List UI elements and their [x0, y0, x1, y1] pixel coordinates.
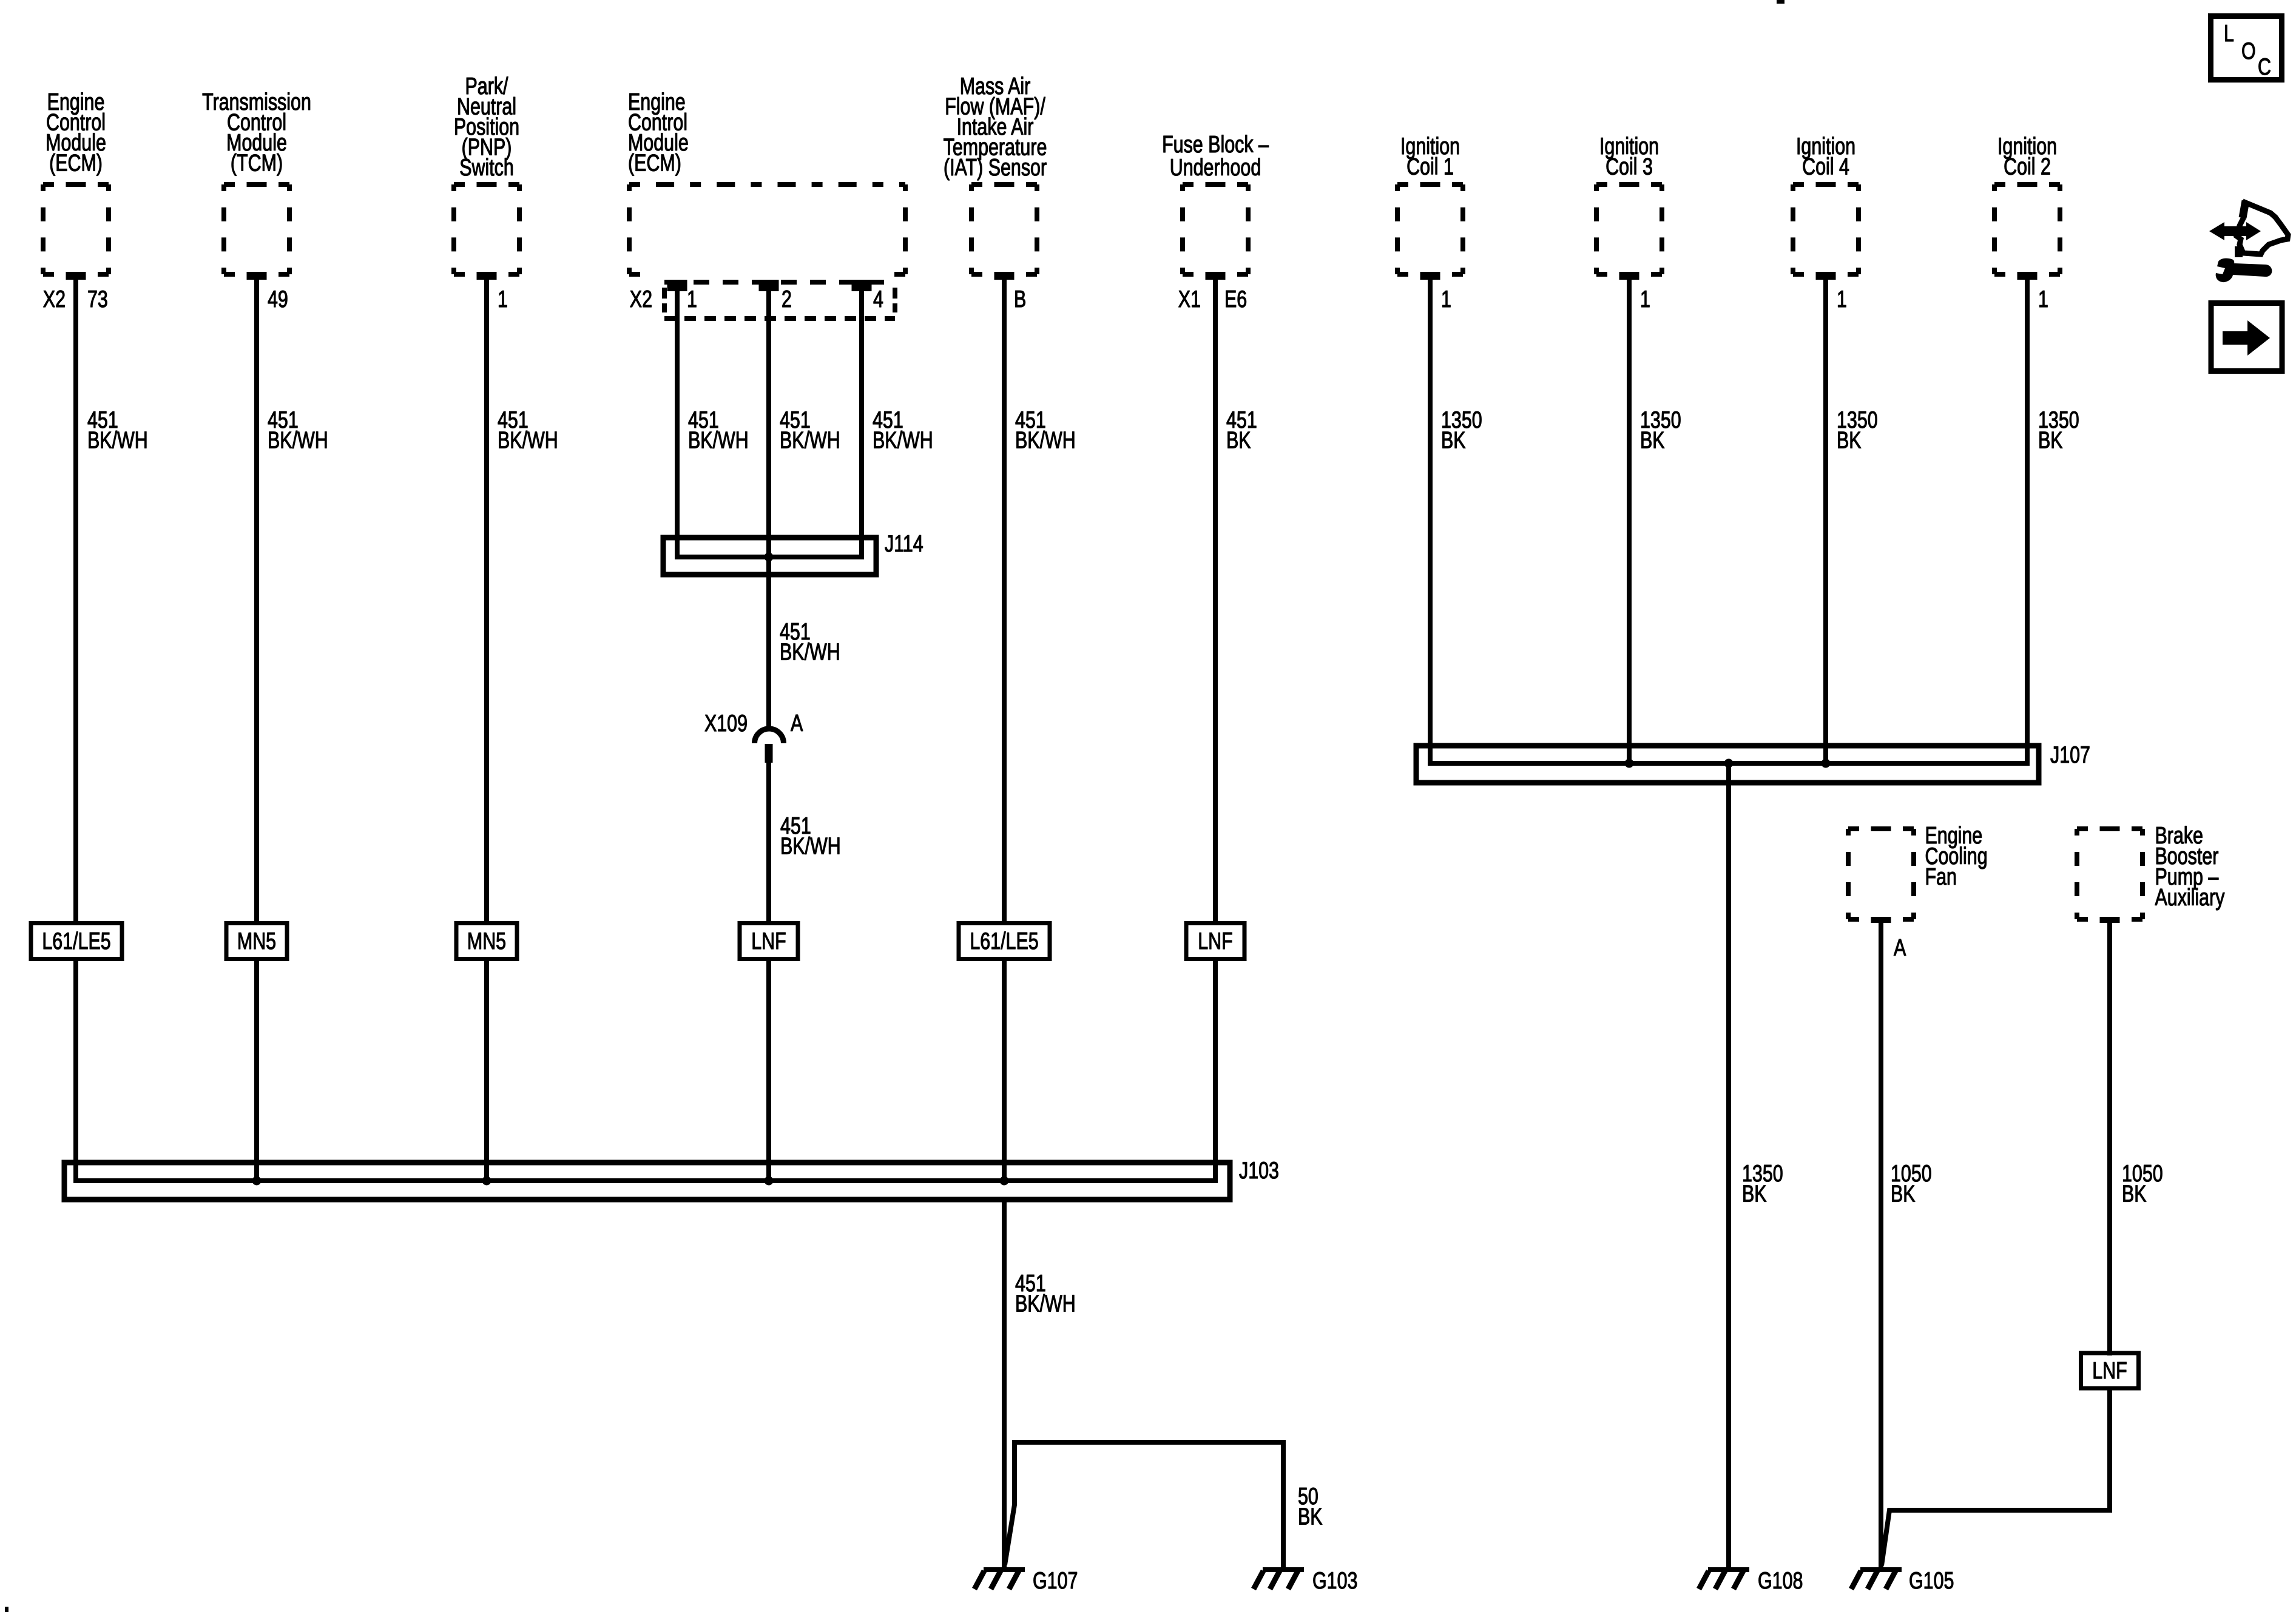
svg-text:LNF: LNF: [1198, 928, 1232, 954]
legend icon: wrench: [2216, 258, 2272, 283]
connector box: Engine Control Module (ECM) #2 (wide): [629, 184, 905, 274]
connector box: Mass Air Flow (MAF)/IAT Sensor: [971, 184, 1037, 274]
page artifact: bottom-left dot: [5, 1607, 8, 1612]
svg-text:BK/WH: BK/WH: [498, 427, 558, 453]
connector box: Brake Booster Pump - Auxiliary: [2077, 829, 2142, 919]
svg-text:MN5: MN5: [237, 928, 276, 954]
connector box: Transmission Control Module (TCM): [224, 184, 289, 274]
pin cap ECM1 73: [66, 274, 86, 280]
svg-text:BK: BK: [2122, 1181, 2147, 1207]
option box LNF (Fuse Block wire): [1186, 923, 1244, 959]
wire 1050 BK from Engine Cooling Fan to ground G105: [1879, 922, 1883, 1567]
wire 451 BK/WH from PNP switch pin 1 (upper): [484, 274, 489, 923]
splice J114 outer box: [663, 538, 876, 575]
svg-text:BK/WH: BK/WH: [688, 427, 749, 453]
connector box: Park/Neutral Position (PNP) Switch: [454, 184, 519, 274]
connector box: Fuse Block - Underhood: [1183, 184, 1248, 274]
wire 1050 BK lower run from LNF box to ground G105: [1882, 1388, 2110, 1565]
pin cap Coil1 1: [1420, 274, 1440, 280]
pin cap Engine Cooling Fan A: [1871, 917, 1891, 923]
svg-text:(ECM): (ECM): [49, 150, 103, 176]
svg-text:J103: J103: [1239, 1157, 1279, 1183]
svg-text:BK/WH: BK/WH: [1015, 1291, 1076, 1317]
pin cap ECM2 pin 4: [852, 280, 872, 291]
svg-text:1: 1: [498, 286, 508, 312]
svg-text:BK: BK: [1891, 1181, 1916, 1207]
page artifact: top edge tick: [1777, 0, 1784, 4]
ground G108: [1699, 1570, 1749, 1589]
svg-text:BK: BK: [1441, 427, 1466, 453]
svg-text:Coil 4: Coil 4: [1802, 154, 1849, 180]
svg-text:G103: G103: [1312, 1567, 1357, 1593]
wire 451 BK/WH from X109 to LNF box: [766, 763, 771, 923]
connector box: Ignition Coil 1: [1397, 184, 1463, 274]
wire 451 BK/WH from ECM2 pin 4 into J114: [859, 280, 864, 559]
svg-text:Fan: Fan: [1925, 863, 1957, 890]
svg-text:BK/WH: BK/WH: [87, 427, 148, 453]
connector box: Ignition Coil 4: [1793, 184, 1859, 274]
svg-text:2: 2: [782, 286, 792, 312]
wire 451 BK/WH from ECM2 pin 2 through J114 to X109: [766, 280, 771, 729]
svg-text:BK: BK: [1298, 1504, 1323, 1530]
wire 1350 BK from Ignition Coil 2 (into J107 corner): [2025, 274, 2030, 766]
svg-text:J107: J107: [2050, 741, 2090, 768]
splice bar of J107: [1428, 761, 2030, 766]
svg-text:1: 1: [687, 286, 697, 312]
svg-text:A: A: [791, 710, 803, 736]
pin cap Coil2 1: [2017, 274, 2038, 280]
svg-text:BK/WH: BK/WH: [780, 833, 841, 859]
connector X2 sub-box of ECM #2 (pins 1,2,4): [664, 282, 895, 319]
svg-text:L61/LE5: L61/LE5: [970, 928, 1038, 954]
wire 451 BK/WH from MAF/IAT sensor pin B (upper): [1002, 274, 1007, 923]
svg-text:(TCM): (TCM): [231, 150, 283, 176]
splice J107 outer box: [1416, 746, 2039, 783]
svg-text:BK/WH: BK/WH: [780, 639, 840, 665]
pin cap Coil4 1: [1816, 274, 1836, 280]
pin cap Coil3 1: [1619, 274, 1639, 280]
svg-text:1: 1: [1837, 286, 1847, 312]
wire 1350 BK from Ignition Coil 4: [1823, 274, 1828, 766]
legend icon: connector shell outline: [2237, 203, 2288, 254]
connector box: Engine Cooling Fan: [1848, 829, 1914, 919]
wire 451 BK/WH from TCM pin 49 (upper): [254, 274, 259, 923]
pin cap PNP 1: [477, 274, 497, 280]
svg-text:Coil 2: Coil 2: [2004, 154, 2051, 180]
junction dot J103 at PNP wire: [482, 1176, 491, 1186]
svg-text:BK/WH: BK/WH: [1015, 427, 1076, 453]
svg-text:4: 4: [873, 286, 883, 312]
svg-text:49: 49: [268, 286, 288, 312]
option box L61/LE5 (MAF wire): [959, 923, 1050, 959]
wire 451 BK/WH from MAF/IAT (lower): [1002, 959, 1007, 1183]
legend right-arrow glyph: [2223, 320, 2270, 356]
wire 451 BK/WH from J103 to ground G107: [1002, 1200, 1007, 1567]
svg-text:1: 1: [1441, 286, 1451, 312]
junction dot J103 at MAF wire / G107 feed: [1000, 1176, 1009, 1186]
wire 1350 BK from Ignition Coil 1 (into J107 corner): [1428, 274, 1433, 766]
svg-text:BK: BK: [1837, 427, 1862, 453]
option box MN5 (PNP wire): [456, 923, 517, 959]
svg-text:BK/WH: BK/WH: [780, 427, 840, 453]
option box MN5 (TCM wire): [226, 923, 287, 959]
svg-text:G108: G108: [1758, 1567, 1803, 1593]
svg-text:X109: X109: [704, 710, 748, 736]
wire 451 BK/WH from LNF box into J103: [766, 959, 771, 1183]
connector X109 half-circle symbol: [755, 729, 784, 743]
splice bar of J114: [675, 555, 864, 559]
svg-text:Auxiliary: Auxiliary: [2155, 884, 2225, 910]
svg-text:Coil 3: Coil 3: [1606, 154, 1653, 180]
svg-text:1: 1: [2038, 286, 2048, 312]
svg-text:Switch: Switch: [459, 155, 514, 181]
wire 1350 BK from Ignition Coil 3: [1627, 274, 1632, 766]
svg-text:BK/WH: BK/WH: [268, 427, 328, 453]
svg-text:G107: G107: [1033, 1567, 1078, 1593]
svg-text:J114: J114: [885, 530, 923, 556]
pin cap ECM2 pin 2: [759, 280, 779, 291]
svg-text:BK: BK: [1640, 427, 1665, 453]
wire 451 BK/WH from PNP switch (lower): [484, 959, 489, 1183]
svg-text:L61/LE5: L61/LE5: [42, 928, 110, 954]
ground G107: [974, 1570, 1025, 1589]
legend icon: connector shell tab: [2235, 246, 2243, 257]
svg-text:Coil 1: Coil 1: [1406, 154, 1454, 180]
svg-text:(IAT) Sensor: (IAT) Sensor: [944, 155, 1047, 181]
svg-text:MN5: MN5: [467, 928, 506, 954]
svg-text:L: L: [2224, 20, 2234, 46]
pin cap Brake Booster Pump: [2100, 917, 2120, 923]
junction dot J107 at Coil4 wire: [1822, 759, 1831, 768]
splice J103 outer box: [64, 1163, 1230, 1200]
wire 451 BK from Fuse Block (lower, into J103 corner): [1213, 959, 1218, 1183]
svg-text:X2: X2: [43, 286, 66, 312]
connector box: Ignition Coil 2: [1994, 184, 2060, 274]
svg-text:BK: BK: [1226, 427, 1251, 453]
svg-text:73: 73: [87, 286, 108, 312]
connector box: Engine Control Module (ECM) #1: [43, 184, 109, 274]
wire 50 BK branch from G107 to ground G103: [1005, 1442, 1283, 1567]
junction dot J103 at ECM2 wire: [765, 1176, 774, 1186]
pin cap TCM 49: [247, 274, 267, 280]
ground G103: [1254, 1570, 1304, 1589]
wire 451 BK from Fuse Block E6 (upper): [1213, 274, 1218, 923]
wire 451 BK/WH from ECM1 pin 73 (upper): [73, 274, 78, 923]
wire 451 BK/WH from ECM1 (lower, into J103 corner): [73, 959, 78, 1183]
pin cap ECM2 pin 1: [667, 280, 687, 291]
svg-text:C: C: [2258, 53, 2271, 79]
svg-text:BK/WH: BK/WH: [873, 427, 933, 453]
splice bar of J103: [73, 1178, 1218, 1183]
legend box: right arrow: [2211, 303, 2282, 371]
svg-text:E6: E6: [1224, 286, 1247, 312]
svg-text:B: B: [1014, 286, 1026, 312]
junction dot J103 at TCM wire: [252, 1176, 262, 1186]
junction dot J107 at Coil3 wire: [1625, 759, 1634, 768]
legend icon: connector shell stub: [2243, 201, 2246, 218]
connector X109 plug blade: [765, 744, 773, 763]
svg-text:O: O: [2241, 38, 2256, 64]
connector box: Ignition Coil 3: [1596, 184, 1662, 274]
legend LOC box: [2211, 16, 2282, 80]
svg-text:X2: X2: [630, 286, 652, 312]
svg-text:1: 1: [1640, 286, 1650, 312]
svg-text:LNF: LNF: [751, 928, 786, 954]
option box LNF (ECM2 wire): [740, 923, 798, 959]
svg-text:(ECM): (ECM): [628, 150, 681, 176]
option box L61/LE5 (ECM1 wire): [31, 923, 122, 959]
wire 1050 BK from Brake Booster Pump to LNF box: [2107, 922, 2112, 1355]
svg-text:X1: X1: [1178, 286, 1201, 312]
svg-text:Underhood: Underhood: [1170, 154, 1261, 180]
junction dot J107 at G108 feed: [1724, 759, 1734, 768]
wire 451 BK/WH from ECM2 pin 1 into J114: [675, 280, 680, 559]
svg-text:BK: BK: [1742, 1181, 1767, 1207]
wire 451 BK/WH from TCM (lower): [254, 959, 259, 1183]
junction dot J114 at pin-2 wire: [765, 553, 774, 562]
pin cap MAF B: [994, 274, 1015, 280]
svg-text:G105: G105: [1909, 1567, 1954, 1593]
legend icon: double arrow: [2209, 222, 2261, 240]
svg-text:A: A: [1894, 934, 1906, 960]
svg-text:BK: BK: [2038, 427, 2063, 453]
pin cap Fuse E6: [1206, 274, 1226, 280]
option box LNF (Brake Booster wire): [2081, 1353, 2139, 1388]
svg-text:Fuse Block –: Fuse Block –: [1162, 131, 1269, 157]
svg-text:LNF: LNF: [2092, 1357, 2127, 1383]
ground G105: [1851, 1570, 1902, 1589]
wire 1350 BK from J107 to ground G108: [1726, 766, 1731, 1567]
